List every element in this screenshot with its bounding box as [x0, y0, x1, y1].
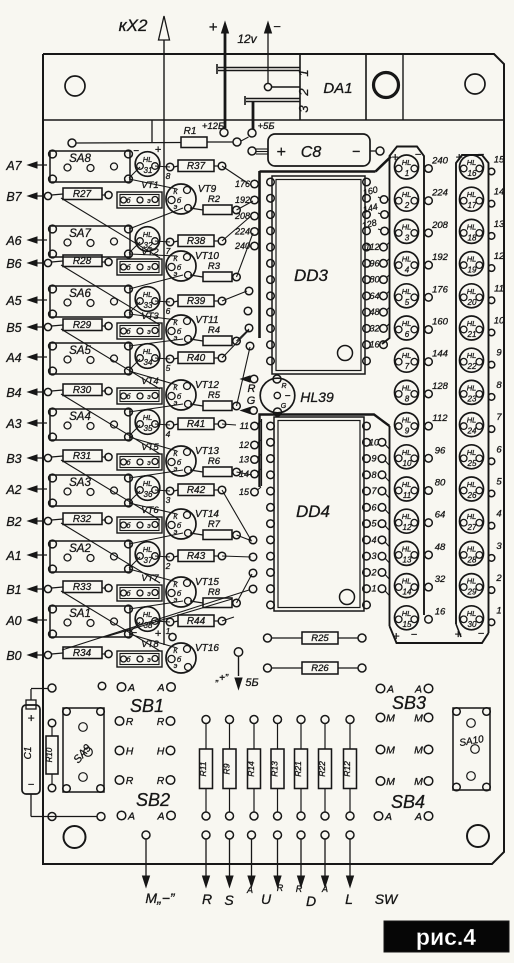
svg-text:М: М — [414, 713, 423, 725]
svg-text:SA3: SA3 — [69, 477, 91, 489]
svg-text:48: 48 — [369, 307, 379, 317]
svg-text:−: − — [411, 629, 418, 641]
wire SA to VT — [129, 634, 177, 648]
svg-text:1: 1 — [371, 584, 376, 594]
resistor R5 — [190, 390, 240, 411]
svg-text:G: G — [247, 395, 256, 407]
node 96 mid — [425, 445, 446, 462]
svg-text:К: К — [173, 254, 178, 263]
svg-text:М: М — [386, 745, 395, 757]
node 160 mid — [425, 317, 449, 334]
LED HL39 — [260, 375, 334, 416]
node 14 — [239, 469, 261, 479]
node 11 edge — [488, 283, 504, 303]
node 96 — [369, 258, 389, 268]
wire HL to R — [155, 621, 170, 622]
LED HL28 — [460, 541, 484, 565]
svg-text:224: 224 — [431, 188, 448, 199]
svg-text:HL: HL — [402, 255, 412, 264]
IC DD4 — [274, 417, 364, 611]
svg-text:20: 20 — [467, 298, 477, 307]
svg-text:SA2: SA2 — [69, 543, 91, 555]
svg-text:э: э — [174, 661, 178, 670]
transistor VT8 — [117, 639, 162, 667]
svg-text:SA9: SA9 — [71, 742, 94, 766]
LED HL17 — [460, 187, 484, 211]
output pad — [321, 831, 329, 839]
svg-text:9: 9 — [405, 427, 410, 436]
resistor R32 — [52, 513, 113, 525]
svg-text:R14: R14 — [246, 761, 256, 777]
wire R to DD pad — [222, 291, 247, 301]
svg-text:35: 35 — [144, 424, 153, 433]
resistor R43 — [166, 550, 226, 562]
svg-text:7: 7 — [371, 486, 377, 496]
LED column 1 enclosure — [382, 147, 424, 627]
svg-text:кX2: кX2 — [119, 16, 148, 35]
DD4 left lower pads — [249, 536, 257, 593]
svg-text:15: 15 — [494, 155, 505, 166]
svg-text:48: 48 — [435, 542, 446, 553]
LED HL33 — [135, 287, 160, 312]
svg-text:э: э — [147, 265, 151, 272]
LED HL6 — [395, 316, 419, 340]
output pad — [142, 831, 150, 839]
node 12 edge — [488, 251, 505, 271]
+5B line from pin 3 — [248, 102, 256, 137]
LED HL13 — [395, 541, 419, 565]
wire diagonal row — [61, 394, 160, 454]
button row A top-left — [117, 682, 175, 694]
svg-text:B7: B7 — [6, 190, 22, 204]
resistor R6 — [190, 456, 240, 477]
LED HL22 — [460, 348, 484, 372]
svg-text:SB2: SB2 — [136, 790, 170, 810]
svg-text:A: A — [156, 811, 164, 823]
DD4 left pin pads — [267, 422, 275, 609]
svg-text:B6: B6 — [6, 257, 21, 271]
svg-text:+: + — [276, 144, 285, 161]
wire diagonal row — [61, 460, 160, 520]
svg-text:R: R — [296, 884, 303, 894]
svg-text:144: 144 — [362, 201, 379, 214]
svg-text:HL: HL — [402, 222, 412, 231]
button row R2 — [115, 775, 175, 787]
node 128 — [361, 217, 389, 234]
svg-text:16: 16 — [468, 169, 477, 178]
wire R to DD pad — [222, 556, 251, 557]
node 1 edge — [488, 605, 501, 625]
svg-text:2: 2 — [370, 567, 376, 577]
resistor R33 — [52, 581, 113, 593]
svg-text:R: R — [157, 716, 165, 728]
node 240 — [234, 241, 258, 251]
svg-text:R28: R28 — [73, 256, 92, 267]
node 112 mid — [425, 413, 449, 430]
wire SA to VT — [129, 503, 177, 514]
mounting hole top-left — [65, 76, 85, 96]
node 10 — [369, 437, 390, 449]
svg-text:HL: HL — [467, 351, 477, 360]
transistor VT16 — [166, 643, 219, 673]
output pad — [297, 831, 305, 839]
node 9 edge — [488, 348, 502, 368]
svg-text:R: R — [126, 716, 134, 728]
svg-text:10: 10 — [494, 316, 505, 327]
svg-text:SW: SW — [375, 891, 399, 907]
svg-text:б: б — [177, 392, 182, 401]
wire diagonal row — [61, 591, 160, 651]
svg-text:R25: R25 — [311, 633, 329, 644]
node 128 mid — [425, 381, 449, 398]
wire R to DD pad — [222, 617, 234, 621]
wire SA to VT — [129, 314, 177, 320]
svg-text:A0: A0 — [5, 614, 21, 628]
node 48 mid — [425, 542, 446, 559]
wire SA up to VT — [129, 533, 183, 544]
switch SA6 — [49, 285, 133, 318]
svg-text:R27: R27 — [73, 189, 92, 200]
svg-text:13: 13 — [494, 219, 505, 230]
svg-text:VT2: VT2 — [141, 247, 159, 258]
svg-text:2: 2 — [165, 561, 171, 571]
transistor VT11 — [166, 315, 219, 345]
svg-text:б: б — [177, 521, 182, 530]
svg-text:э: э — [147, 523, 151, 530]
node 144 — [362, 201, 389, 218]
node 7 — [166, 246, 171, 256]
HL38 polarity — [131, 628, 162, 640]
svg-text:A7: A7 — [5, 159, 22, 173]
svg-text:К: К — [173, 580, 178, 589]
svg-text:26: 26 — [467, 491, 477, 500]
LED HL1 — [395, 155, 419, 179]
node 80 mid — [425, 478, 446, 495]
wire R to DD pad — [237, 472, 253, 475]
svg-text:−: − — [28, 779, 35, 791]
wire to R1 — [68, 139, 181, 147]
LED HL7 — [395, 348, 419, 372]
svg-text:R30: R30 — [73, 385, 92, 396]
svg-text:9: 9 — [371, 454, 376, 464]
svg-text:R41: R41 — [187, 419, 205, 430]
wire SA up to VT — [129, 339, 183, 346]
node 208 mid — [425, 220, 449, 237]
svg-text:33: 33 — [144, 301, 153, 310]
svg-text:R43: R43 — [187, 551, 206, 562]
resistor R29 — [52, 319, 113, 331]
label M minus — [145, 890, 176, 906]
svg-text:К: К — [173, 187, 178, 196]
svg-text:R40: R40 — [187, 353, 206, 364]
svg-text:HL: HL — [143, 290, 153, 299]
node 2 edge — [488, 573, 502, 593]
resistor R39 — [166, 295, 226, 307]
LED HL25 — [460, 445, 484, 469]
svg-text:B5: B5 — [6, 321, 21, 335]
node 5 edge — [488, 477, 502, 497]
svg-text:SB3: SB3 — [392, 693, 426, 713]
svg-text:б: б — [127, 459, 132, 467]
button row R — [115, 716, 175, 728]
svg-text:240: 240 — [431, 156, 449, 167]
svg-text:э: э — [147, 657, 151, 664]
svg-text:−: − — [352, 143, 360, 159]
wire R to DD pad — [222, 490, 251, 540]
svg-text:112: 112 — [432, 413, 448, 424]
svg-text:−: − — [133, 146, 139, 157]
svg-text:A: A — [414, 811, 422, 823]
resistor R4 — [190, 325, 240, 346]
svg-text:8: 8 — [496, 380, 502, 391]
svg-text:7: 7 — [166, 246, 171, 256]
transistor VT10 — [166, 251, 219, 281]
svg-text:32: 32 — [369, 323, 379, 333]
svg-text:R10: R10 — [45, 747, 54, 762]
svg-text:18: 18 — [468, 233, 477, 242]
transistor VT1 — [117, 180, 162, 208]
svg-text:R44: R44 — [187, 616, 206, 627]
svg-text:R5: R5 — [208, 390, 221, 401]
switch SA9 — [63, 708, 105, 793]
output arrow — [203, 840, 210, 888]
LED HL11 — [395, 477, 419, 501]
wire HL to SA — [129, 302, 140, 313]
label D out — [306, 884, 328, 909]
svg-text:М: М — [386, 776, 395, 788]
svg-text:5: 5 — [166, 363, 171, 373]
switch SA7 — [49, 225, 133, 258]
svg-text:29: 29 — [467, 588, 477, 597]
svg-text:HL39: HL39 — [300, 389, 334, 405]
svg-text:К: К — [173, 512, 178, 521]
node 48 — [369, 307, 389, 317]
resistor R3 — [190, 261, 240, 282]
svg-text:М: М — [414, 776, 423, 788]
wire R to DD pad — [222, 330, 249, 358]
svg-text:К: К — [173, 646, 178, 655]
svg-text:36: 36 — [144, 490, 153, 499]
figure caption — [384, 921, 509, 952]
LED HL12 — [395, 509, 419, 533]
svg-text:VT1: VT1 — [141, 180, 158, 191]
svg-text:16: 16 — [369, 340, 379, 350]
svg-text:L: L — [345, 891, 353, 907]
polarity marks column2 bottom — [454, 627, 484, 641]
LED HL23 — [460, 380, 484, 404]
LED HL9 — [395, 413, 419, 437]
switch SA4 — [49, 408, 133, 441]
output arrow — [298, 840, 305, 888]
svg-text:э: э — [147, 591, 151, 598]
svg-text:27: 27 — [467, 523, 477, 532]
net B2 label — [6, 515, 51, 529]
svg-text:DA1: DA1 — [323, 80, 352, 97]
svg-text:HL: HL — [467, 448, 477, 457]
svg-text:3: 3 — [296, 105, 311, 113]
LED HL5 — [395, 284, 419, 308]
output arrow — [248, 840, 255, 888]
LED columns merged bottom — [390, 626, 489, 643]
wire SA to VT — [129, 569, 177, 582]
svg-text:R: R — [126, 775, 134, 787]
HL31 polarity — [133, 144, 162, 157]
wire HL to R — [155, 424, 170, 425]
button row M3 — [376, 776, 433, 788]
resistor R10 — [45, 719, 58, 792]
transistor VT7 — [117, 573, 162, 601]
svg-text:R32: R32 — [73, 514, 92, 525]
mounting hole bottom-right — [467, 825, 489, 847]
svg-text:1: 1 — [296, 69, 311, 76]
wire SA up to VT — [129, 275, 183, 289]
button SB4 — [391, 792, 425, 812]
svg-text:HL: HL — [402, 577, 412, 586]
button row A bottom-right — [374, 811, 433, 823]
LED HL31 — [135, 152, 160, 177]
svg-text:4: 4 — [496, 509, 501, 520]
svg-text:15: 15 — [239, 487, 250, 497]
svg-text:R12: R12 — [342, 761, 352, 777]
svg-text:HL: HL — [467, 609, 477, 618]
node 3 — [371, 551, 389, 563]
resistor R37 — [166, 160, 226, 172]
switch SA1 — [49, 605, 133, 638]
svg-text:A: A — [384, 811, 392, 823]
net A1 label — [5, 549, 47, 563]
svg-text:2: 2 — [404, 201, 410, 210]
wire R to DD pad — [237, 329, 250, 341]
switch SA10 — [453, 708, 491, 791]
transistor VT9 — [166, 184, 217, 214]
output pad — [202, 831, 210, 839]
svg-text:B2: B2 — [6, 515, 21, 529]
DD4 right pin pads — [363, 422, 371, 609]
svg-text:б: б — [127, 590, 132, 598]
svg-text:80: 80 — [369, 275, 379, 285]
kX2 bus arrow — [159, 16, 170, 645]
wire SA to VT — [129, 437, 177, 451]
regulator DA1 — [300, 54, 366, 120]
button SB2 — [136, 790, 170, 810]
transistor VT13 — [166, 446, 219, 476]
button row M1 — [376, 713, 433, 725]
resistor R14 — [246, 716, 261, 821]
svg-text:R37: R37 — [187, 161, 206, 172]
svg-text:160: 160 — [432, 317, 449, 328]
divider right of DA1 — [402, 54, 404, 120]
svg-text:B4: B4 — [6, 386, 21, 400]
svg-text:B0: B0 — [6, 649, 21, 663]
label +5B — [257, 121, 274, 132]
svg-text:R31: R31 — [73, 451, 91, 462]
svg-text:25: 25 — [467, 459, 477, 468]
svg-text:A: A — [246, 885, 253, 895]
node 13 — [239, 455, 261, 465]
wire HL to R — [155, 358, 170, 359]
+5B output arrow — [215, 648, 259, 689]
svg-text:176: 176 — [432, 284, 449, 295]
wire R to DD pad — [222, 166, 249, 184]
LED HL4 — [395, 252, 419, 276]
label +12B — [202, 121, 224, 132]
svg-text:HL: HL — [143, 545, 153, 554]
resistor R27 — [52, 188, 113, 200]
svg-text:R: R — [281, 383, 286, 390]
svg-text:HL: HL — [402, 158, 412, 167]
node 240 mid — [425, 156, 449, 173]
svg-text:R42: R42 — [187, 485, 206, 496]
transistor VT14 — [166, 509, 219, 539]
svg-text:VT6: VT6 — [141, 505, 159, 516]
svg-text:112: 112 — [365, 242, 379, 252]
resistor R22 — [317, 716, 332, 821]
wire VT8 area diagonal — [105, 599, 232, 637]
svg-text:2: 2 — [296, 88, 311, 97]
svg-text:32: 32 — [435, 574, 446, 585]
wire SA up to VT — [129, 601, 183, 609]
svg-text:R4: R4 — [208, 325, 220, 336]
LED HL36 — [135, 476, 160, 501]
svg-text:э: э — [147, 198, 151, 205]
svg-text:128: 128 — [432, 381, 449, 392]
resistor R21 — [293, 716, 308, 821]
DD3 right pin pads — [363, 178, 371, 365]
node 2 — [165, 561, 171, 571]
svg-text:8: 8 — [405, 394, 410, 403]
polarity marks column1 top — [391, 149, 421, 164]
svg-text:96: 96 — [435, 445, 446, 456]
node 192 mid — [425, 252, 449, 269]
svg-text:R9: R9 — [222, 763, 232, 774]
wire R to DD pad — [237, 347, 251, 406]
button row M2 — [376, 745, 433, 757]
svg-text:б: б — [177, 263, 182, 272]
node 224 mid — [425, 188, 448, 205]
transistor VT2 — [117, 247, 162, 275]
wire HL to R — [155, 301, 170, 302]
LED HL16 — [460, 155, 484, 179]
svg-text:4: 4 — [405, 266, 410, 275]
svg-text:SA10: SA10 — [459, 734, 485, 749]
IC DD3 — [272, 176, 365, 374]
svg-text:SA1: SA1 — [69, 608, 91, 620]
capacitor C1 — [22, 684, 105, 821]
resistor R13 — [270, 716, 285, 821]
svg-text:A: A — [156, 682, 164, 694]
node 208 — [234, 211, 258, 221]
svg-text:SB4: SB4 — [391, 792, 425, 812]
transistor VT4 — [117, 376, 162, 404]
wire SA up to VT — [129, 404, 183, 412]
svg-text:R: R — [248, 383, 256, 395]
svg-text:C8: C8 — [301, 144, 322, 161]
svg-text:К: К — [173, 318, 178, 327]
svg-text:34: 34 — [144, 358, 153, 367]
svg-text:A: A — [321, 884, 328, 894]
svg-text:6: 6 — [405, 330, 410, 339]
resistor R8 — [190, 587, 240, 608]
svg-text:HL: HL — [467, 512, 477, 521]
resistor R34 — [52, 647, 113, 659]
output arrow — [322, 840, 329, 888]
svg-text:6: 6 — [496, 444, 502, 455]
LED HL37 — [135, 542, 160, 567]
LED HL8 — [395, 380, 419, 404]
svg-text:R39: R39 — [187, 296, 206, 307]
svg-text:19: 19 — [468, 266, 477, 275]
button row A bottom-left — [117, 811, 175, 823]
